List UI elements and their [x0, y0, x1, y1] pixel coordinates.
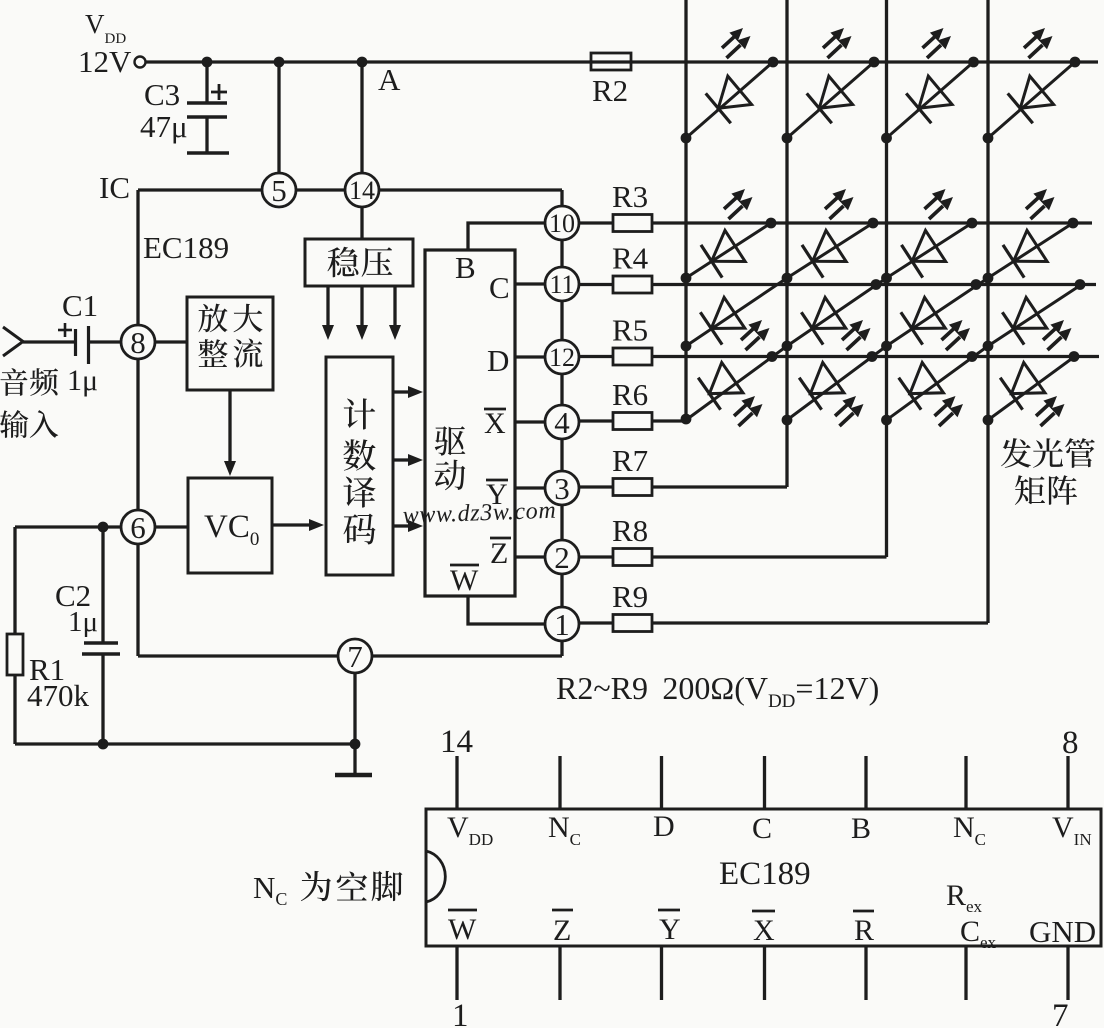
block counter-decoder 计数译码 [326, 357, 393, 575]
capacitor C2 [101, 527, 104, 643]
svg-text:EC189: EC189 [719, 856, 811, 892]
svg-text:10: 10 [549, 209, 575, 238]
wire X output [515, 420, 546, 423]
arrow counter to driver 1 [393, 390, 408, 393]
LED D4 (row1) [988, 62, 1075, 138]
wire bottom rail [15, 742, 355, 745]
wire pin to R8 [578, 555, 613, 558]
wire D output [515, 355, 546, 358]
wire B input [468, 223, 546, 250]
svg-text:1μ: 1μ [68, 606, 98, 638]
svg-text:7: 7 [1052, 998, 1069, 1028]
junction dot C2 bottom [98, 739, 109, 750]
wire pin14 to regulator [360, 206, 363, 239]
svg-text:W: W [450, 564, 479, 597]
junction dot C2 top [98, 522, 109, 533]
svg-text:R2: R2 [592, 73, 628, 108]
resistor R2 [591, 53, 631, 70]
wire Y output [515, 486, 546, 489]
svg-text:R7: R7 [612, 443, 648, 478]
svg-text:R8: R8 [612, 513, 648, 548]
svg-text:12: 12 [549, 343, 575, 372]
svg-text:R5: R5 [612, 313, 648, 348]
svg-text:R3: R3 [612, 179, 648, 214]
wire pin to R5 [578, 355, 613, 358]
svg-text:Y: Y [659, 913, 681, 946]
wire pin6 to VCO [154, 525, 188, 528]
label audio-in line2 [0, 410, 28, 438]
LED chain row4 col2-4 [787, 223, 1073, 420]
wire pin14 drop [360, 62, 363, 174]
LED D16 (row4) [1000, 362, 1045, 410]
C3 plus sign [211, 91, 227, 94]
resistor R1 [7, 634, 23, 675]
C3 bottom bar [187, 151, 229, 154]
C1 plus sign [58, 329, 72, 332]
svg-text:5: 5 [271, 173, 287, 208]
IC package EC189 body [426, 809, 1101, 946]
wire IC top edge [138, 188, 263, 191]
LED D2 (row1) [787, 62, 874, 138]
block regulator 稳压 [305, 239, 413, 286]
resistor R7 [613, 479, 652, 496]
svg-text:R4: R4 [612, 241, 649, 276]
svg-text:IC: IC [99, 170, 130, 205]
junction dot node A tap [357, 57, 368, 68]
svg-text:2: 2 [554, 540, 570, 575]
svg-text:C: C [752, 812, 772, 845]
svg-text:8: 8 [130, 325, 146, 360]
resistor R8 [613, 549, 652, 566]
pin circle 12 [545, 340, 579, 374]
pin circle 3 [545, 471, 579, 505]
svg-text:X: X [484, 407, 506, 440]
IC package top pin leads [455, 756, 458, 809]
svg-text:1: 1 [554, 607, 570, 642]
LED D12 (row3) [1002, 297, 1047, 345]
LED chain row4 col1-3 [686, 223, 972, 420]
wire R5 row [652, 355, 1099, 358]
arrow amp to VCO [228, 390, 231, 461]
pin circle 7 [338, 639, 372, 673]
wire pin6 left [15, 525, 122, 528]
wire R8 row [652, 555, 887, 558]
block driver 驱动 [425, 250, 515, 596]
svg-text:4: 4 [554, 405, 570, 440]
wire pin to R7 [578, 485, 613, 488]
block amp-rectifier 放大整流 [187, 297, 273, 390]
svg-text:470k: 470k [27, 678, 90, 713]
ground [353, 744, 356, 773]
LED chain row3 col1-2 [686, 223, 873, 346]
pin circle 14 [345, 173, 379, 207]
power terminal VDD 12V [135, 57, 146, 68]
svg-text:3: 3 [554, 471, 570, 506]
LED D5 (row2) [701, 230, 746, 278]
svg-text:C3: C3 [144, 77, 180, 112]
wire top VDD rail [146, 60, 1098, 63]
svg-text:Z: Z [490, 537, 508, 570]
LED D6 (row2) [802, 230, 847, 278]
resistor R9 [613, 615, 652, 632]
junction dot C3 tap [202, 57, 213, 68]
LED chain row4 col4 [988, 357, 1074, 420]
LED D10 (row3) [801, 297, 846, 345]
pin circle 8 [121, 325, 155, 359]
arrow regulator out 1 [326, 286, 329, 325]
LED D11 (row3) [901, 297, 946, 345]
LED D14 (row4) [799, 362, 844, 410]
svg-text:14: 14 [349, 176, 375, 205]
wire R4 row [652, 283, 1096, 286]
arrow counter to driver 3 [393, 524, 408, 527]
wire pin7 drop [353, 672, 356, 744]
arrow VCO to counter [272, 523, 309, 526]
wire Z output [515, 555, 546, 558]
LED D9 (row3) [700, 297, 745, 345]
wire C1 to pin8 [89, 340, 123, 343]
svg-text:Z: Z [553, 914, 571, 947]
wire pin to R9 [578, 621, 613, 624]
matrix column line 2 [785, 0, 788, 487]
wire pin5 drop [277, 62, 280, 174]
capacitor C3 [205, 62, 208, 103]
svg-text:C1: C1 [62, 288, 98, 323]
svg-text:R6: R6 [612, 377, 648, 412]
audio input connector [3, 327, 23, 356]
wire C output [515, 282, 546, 285]
wire R3 row [652, 221, 1092, 224]
arrow counter to driver 2 [393, 458, 408, 461]
pin circle 4 [545, 405, 579, 439]
wire R9 row [652, 621, 988, 624]
LED chain row4 col3-4 [887, 286, 1081, 421]
svg-text:W: W [448, 913, 477, 946]
IC package bottom pin leads [455, 946, 458, 1000]
svg-text:R9: R9 [612, 579, 648, 614]
resistor R4 [613, 276, 652, 293]
svg-text:R: R [854, 914, 874, 947]
label LED matrix 发光管 [1001, 438, 1031, 468]
pin circle 10 [545, 206, 579, 240]
wire IC bottom edge [138, 654, 339, 657]
wire pin to R4 [578, 283, 613, 286]
LED D13 (row4) [698, 362, 743, 410]
svg-text:1: 1 [452, 998, 469, 1028]
arrow regulator out 3 [393, 286, 396, 325]
svg-text:R2~R9 200Ω(VDD=12V): R2~R9 200Ω(VDD=12V) [556, 670, 879, 712]
svg-text:X: X [753, 914, 775, 947]
resistor R5 [613, 348, 652, 365]
wire IC left edge [136, 190, 139, 326]
capacitor C1 [74, 329, 77, 356]
svg-text:GND: GND [1029, 914, 1096, 949]
wire pin8 to amp [154, 340, 187, 343]
wire R6 row [652, 419, 686, 422]
wire pin to R6 [578, 419, 613, 422]
LED D15 (row4) [899, 362, 944, 410]
svg-text:11: 11 [549, 270, 574, 299]
svg-text:B: B [455, 250, 476, 285]
arrow regulator out 2 [360, 286, 363, 325]
LED D7 (row2) [901, 230, 946, 278]
svg-text:D: D [487, 343, 509, 378]
matrix junction dots column lines [681, 273, 692, 284]
svg-text:C: C [489, 270, 510, 305]
junction dot pin5 tap [274, 57, 285, 68]
wire pin to R3 [578, 221, 613, 224]
svg-text:EC189: EC189 [143, 230, 229, 265]
wire W output [468, 596, 546, 624]
matrix column line 1 [684, 0, 687, 420]
wire IC right edge [560, 190, 563, 207]
svg-text:B: B [851, 812, 871, 845]
IC package notch [426, 851, 445, 902]
pin circle 6 [121, 510, 155, 544]
LED D3 (row1) [887, 62, 974, 138]
svg-text:D: D [653, 810, 675, 843]
resistor R3 [613, 215, 652, 232]
label audio-in line1 [0, 368, 27, 396]
pin circle 2 [545, 540, 579, 574]
wire R1 to bottom [13, 675, 16, 744]
svg-text:8: 8 [1062, 725, 1079, 761]
LED D8 (row2) [1003, 230, 1048, 278]
svg-text:47μ: 47μ [140, 109, 188, 144]
svg-text:12V: 12V [78, 44, 132, 79]
svg-text:6: 6 [130, 510, 146, 545]
LED D1 (row1) [686, 62, 773, 138]
wire R7 row [652, 485, 787, 488]
matrix column line 4 [986, 0, 989, 623]
wire left branch down [13, 527, 16, 634]
block VCO [188, 478, 272, 573]
svg-text:1μ: 1μ [67, 364, 98, 397]
matrix column line 3 [885, 0, 888, 557]
svg-text:www.dz3w.com: www.dz3w.com [402, 498, 556, 529]
svg-text:A: A [378, 62, 401, 97]
label LED matrix 矩阵 [1015, 475, 1045, 505]
LED chain row2 col1 [686, 223, 771, 278]
pin circle 5 [262, 173, 296, 207]
matrix junction dots row wires [766, 218, 777, 229]
pin circle 1 [545, 607, 579, 641]
pin circle 11 [545, 267, 579, 301]
svg-text:7: 7 [347, 639, 363, 674]
resistor R6 [613, 413, 652, 430]
svg-text:14: 14 [440, 724, 473, 760]
junction dot ground [350, 739, 361, 750]
wire input to C1 [23, 340, 75, 343]
